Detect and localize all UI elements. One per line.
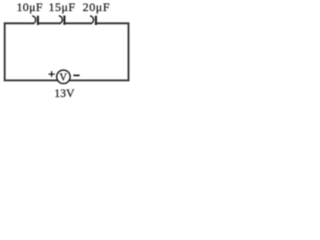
svg-text:10μF: 10μF xyxy=(17,0,43,14)
svg-text:13V: 13V xyxy=(54,88,75,100)
svg-text:15μF: 15μF xyxy=(49,0,76,14)
svg-text:V: V xyxy=(60,72,68,83)
svg-text:20μF: 20μF xyxy=(83,0,111,14)
